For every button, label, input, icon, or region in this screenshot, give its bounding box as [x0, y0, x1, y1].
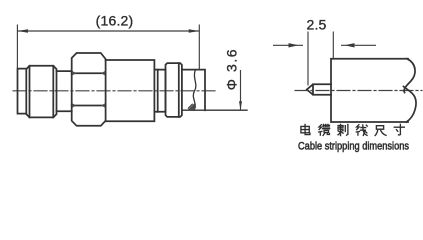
- svg-text:2.5: 2.5: [306, 16, 326, 32]
- svg-text:Cable stripping dimensions: Cable stripping dimensions: [298, 140, 410, 152]
- svg-text:Φ 3.6: Φ 3.6: [224, 49, 240, 90]
- svg-text:(16.2): (16.2): [96, 13, 134, 29]
